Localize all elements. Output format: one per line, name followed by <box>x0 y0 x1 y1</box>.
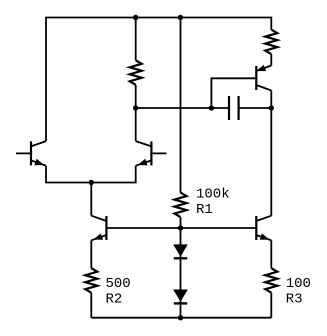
capacitor C1 (compensation) <box>229 96 239 120</box>
wire top rail to mid resistor <box>135 18 137 61</box>
wire base node through D1 and D2 to bottom rail <box>180 228 182 318</box>
wire R1 to base node <box>180 217 182 228</box>
wire resistor to Q5 emitter <box>270 54 272 65</box>
wire node to capacitor left <box>136 107 229 109</box>
wire bottom rail <box>91 317 271 319</box>
resistor R1 100k <box>175 193 187 218</box>
wire Q5 collector down right column <box>270 91 272 216</box>
svg-text:R2: R2 <box>106 292 123 308</box>
transistor Q2 (right of diff pair, NPN) <box>136 141 167 166</box>
transistor Q5 (PNP) <box>256 65 271 90</box>
wire emitter node to Q3 collector <box>90 183 92 216</box>
resistor R2 500 <box>85 268 97 293</box>
wire Q5 base to cap-left node <box>211 78 256 108</box>
wire R2 to bottom rail <box>90 293 92 318</box>
node top rail / mid resistor <box>133 15 138 20</box>
svg-text:100: 100 <box>286 276 311 292</box>
node top rail / center column <box>178 15 183 20</box>
node R1 / bases / D1 <box>178 225 183 230</box>
node diff-pair emitters <box>89 180 94 185</box>
wire mid resistor to Q2 collector <box>135 85 137 141</box>
diode D1 <box>174 245 187 259</box>
svg-text:100k: 100k <box>196 187 230 203</box>
transistor Q1 (left of diff pair, NPN) <box>16 141 46 166</box>
svg-text:500: 500 <box>106 276 131 292</box>
svg-text:R3: R3 <box>286 292 303 308</box>
node capacitor right / Q5 collector <box>269 105 274 110</box>
node mid resistor bottom <box>133 105 138 110</box>
wire V+ rail (top) with left and right drops <box>46 18 271 142</box>
wire Q3 emitter to R2 <box>90 240 92 268</box>
resistor R3 100 <box>265 268 277 293</box>
transistor Q3 (bottom left, NPN) <box>91 216 106 241</box>
wire diff-pair emitters <box>46 166 136 183</box>
diode D2 <box>174 290 187 304</box>
resistor (top right, unlabeled) <box>265 30 277 54</box>
svg-text:R1: R1 <box>196 202 213 218</box>
wire Q4 emitter to R3 <box>270 240 272 268</box>
resistor (middle, unlabeled) <box>130 60 142 85</box>
node D2 / bottom rail <box>178 315 183 320</box>
node Q5 base / capacitor left <box>209 105 214 110</box>
transistor Q4 (bottom right, NPN) <box>256 216 271 241</box>
wire R3 to bottom rail <box>270 293 272 318</box>
wire capacitor right to collector node <box>239 107 272 109</box>
wire top rail to R1 <box>180 18 182 193</box>
wire Q3 base to Q4 base <box>106 227 256 229</box>
